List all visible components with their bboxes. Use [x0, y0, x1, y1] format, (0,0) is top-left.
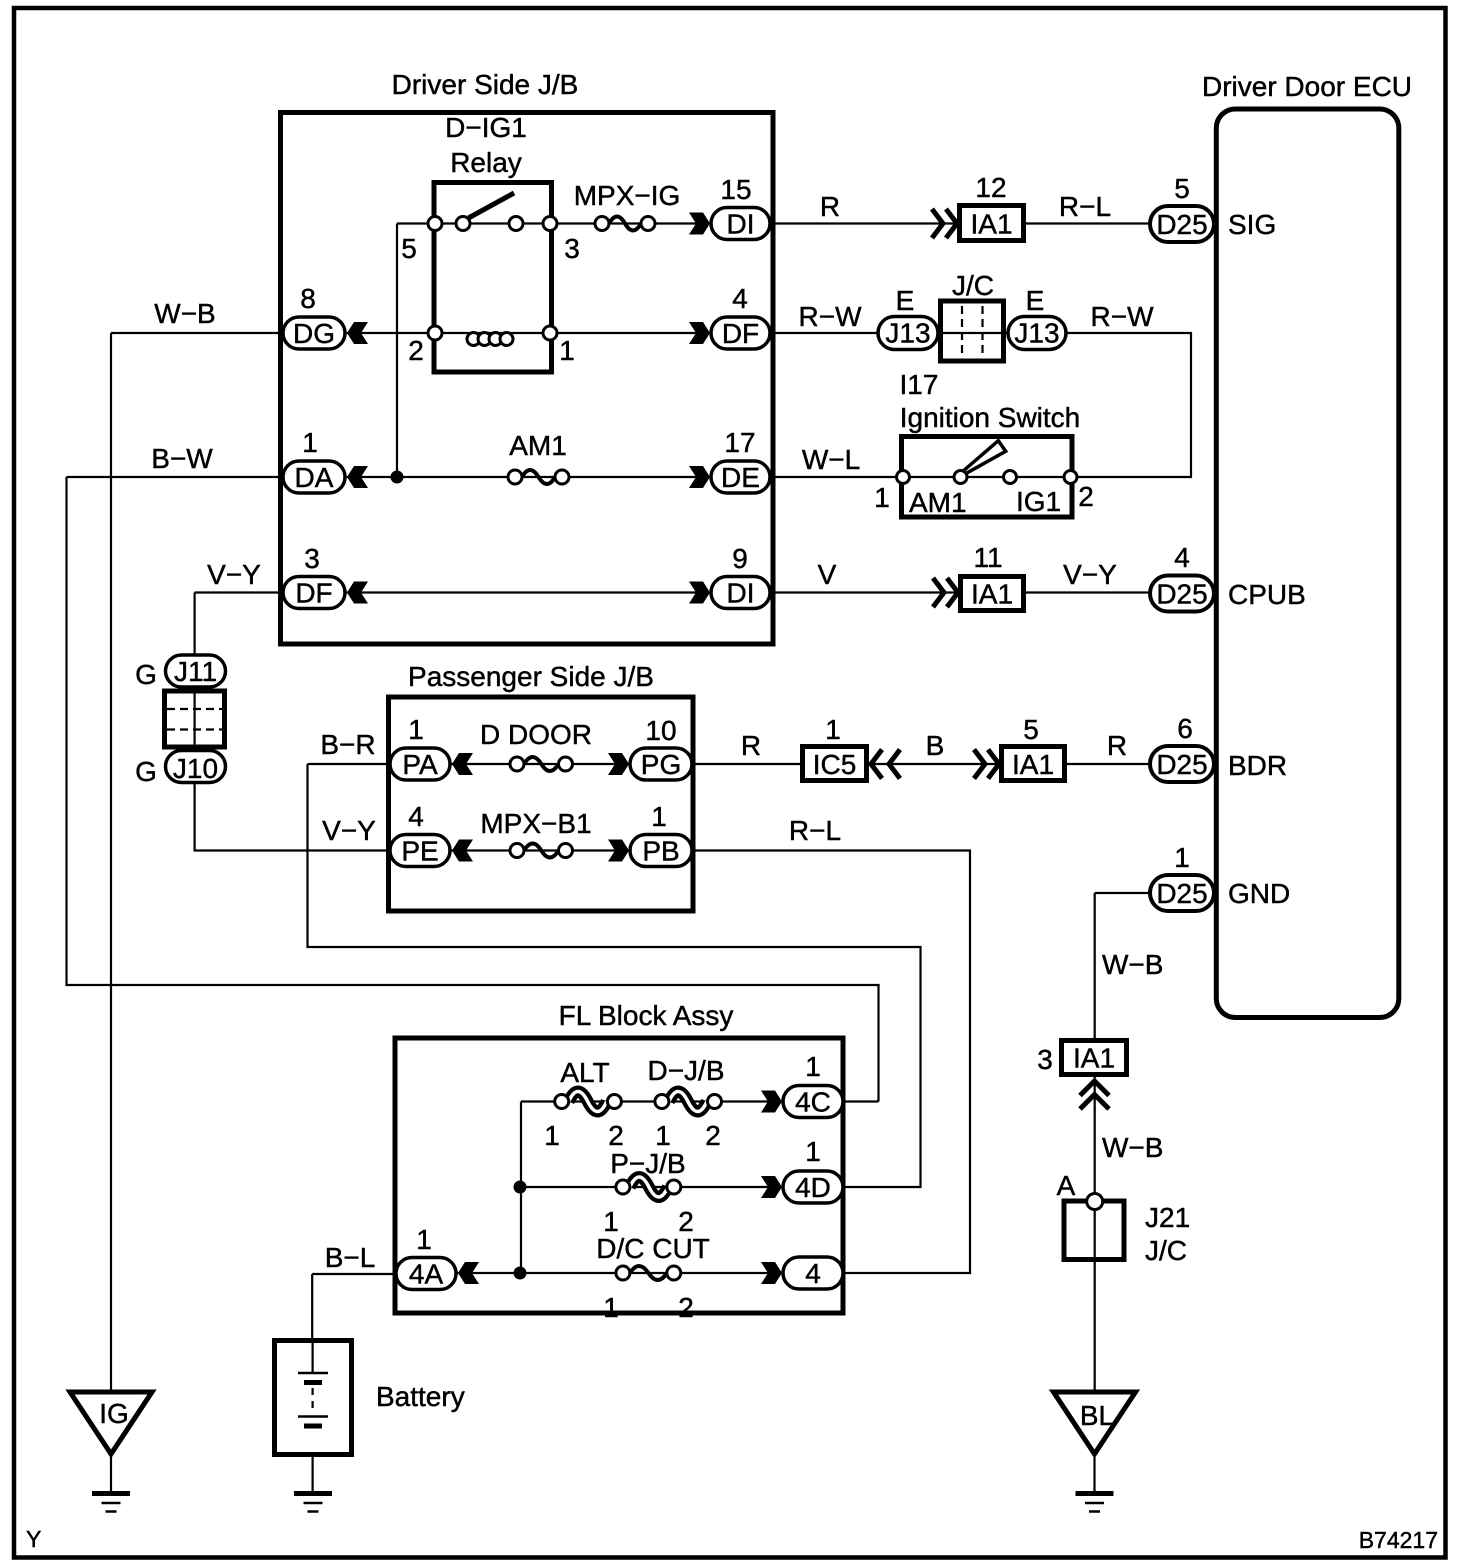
svg-text:V−Y: V−Y: [207, 559, 261, 590]
svg-text:P−J/B: P−J/B: [610, 1148, 685, 1179]
svg-text:AM1: AM1: [509, 430, 567, 461]
svg-text:8: 8: [300, 283, 316, 314]
svg-text:2: 2: [408, 335, 424, 366]
svg-text:IC5: IC5: [813, 749, 857, 780]
svg-text:V: V: [818, 559, 837, 590]
svg-text:MPX−B1: MPX−B1: [480, 808, 591, 839]
svg-text:A: A: [1057, 1170, 1076, 1201]
svg-text:J/C: J/C: [952, 270, 994, 301]
svg-text:10: 10: [645, 715, 676, 746]
svg-text:15: 15: [720, 174, 751, 205]
svg-text:DF: DF: [295, 578, 332, 609]
svg-text:W−B: W−B: [1102, 1132, 1163, 1163]
svg-text:J10: J10: [173, 753, 218, 784]
svg-text:Driver Door ECU: Driver Door ECU: [1202, 71, 1412, 102]
svg-text:ALT: ALT: [560, 1057, 609, 1088]
svg-text:4D: 4D: [795, 1172, 831, 1203]
svg-text:1: 1: [603, 1292, 619, 1323]
svg-text:1: 1: [825, 714, 841, 745]
svg-text:4: 4: [732, 283, 748, 314]
svg-text:D25: D25: [1156, 209, 1207, 240]
svg-text:DE: DE: [721, 462, 760, 493]
svg-text:1: 1: [408, 714, 424, 745]
svg-text:3: 3: [1037, 1044, 1053, 1075]
svg-text:D/C CUT: D/C CUT: [596, 1233, 710, 1264]
svg-text:2: 2: [608, 1120, 624, 1151]
svg-text:4: 4: [1174, 542, 1190, 573]
svg-text:Driver Side J/B: Driver Side J/B: [392, 69, 579, 100]
svg-text:R−L: R−L: [789, 815, 841, 846]
svg-text:IA1: IA1: [1012, 749, 1054, 780]
svg-text:R−W: R−W: [799, 301, 863, 332]
svg-text:J/C: J/C: [1145, 1235, 1187, 1266]
svg-text:W−B: W−B: [1102, 949, 1163, 980]
svg-text:W−B: W−B: [154, 298, 215, 329]
svg-text:DF: DF: [722, 318, 759, 349]
svg-text:1: 1: [805, 1136, 821, 1167]
svg-text:PB: PB: [642, 836, 679, 867]
svg-text:5: 5: [401, 233, 417, 264]
svg-text:R−W: R−W: [1091, 301, 1155, 332]
svg-text:GND: GND: [1228, 878, 1290, 909]
svg-text:I17: I17: [900, 369, 939, 400]
svg-text:Relay: Relay: [450, 147, 522, 178]
svg-text:12: 12: [975, 172, 1006, 203]
svg-text:PG: PG: [641, 749, 681, 780]
svg-text:17: 17: [724, 427, 755, 458]
svg-text:R−L: R−L: [1059, 191, 1111, 222]
svg-text:J11: J11: [174, 656, 217, 687]
svg-text:3: 3: [304, 543, 320, 574]
svg-text:SIG: SIG: [1228, 209, 1276, 240]
svg-text:FL Block Assy: FL Block Assy: [559, 1000, 734, 1031]
svg-text:11: 11: [973, 542, 1002, 573]
svg-text:IA1: IA1: [1073, 1043, 1115, 1074]
svg-text:V−Y: V−Y: [322, 815, 376, 846]
svg-text:4C: 4C: [795, 1087, 831, 1118]
svg-text:D−J/B: D−J/B: [647, 1055, 724, 1086]
svg-text:IG1: IG1: [1016, 486, 1061, 517]
svg-text:BL: BL: [1080, 1400, 1114, 1431]
svg-text:Ignition Switch: Ignition Switch: [900, 402, 1081, 433]
svg-text:2: 2: [1078, 481, 1094, 512]
svg-text:CPUB: CPUB: [1228, 579, 1306, 610]
svg-text:D25: D25: [1156, 878, 1207, 909]
svg-text:PE: PE: [401, 836, 438, 867]
svg-text:V−Y: V−Y: [1063, 559, 1117, 590]
svg-text:B74217: B74217: [1359, 1527, 1438, 1553]
svg-text:1: 1: [805, 1051, 821, 1082]
svg-text:W−L: W−L: [802, 444, 860, 475]
svg-text:1: 1: [874, 482, 890, 513]
svg-text:G: G: [135, 659, 157, 690]
svg-text:1: 1: [302, 427, 318, 458]
svg-text:4: 4: [408, 801, 424, 832]
svg-text:B: B: [926, 730, 945, 761]
svg-text:J13: J13: [885, 318, 930, 349]
svg-text:1: 1: [544, 1120, 560, 1151]
svg-text:D25: D25: [1156, 579, 1207, 610]
svg-text:D−IG1: D−IG1: [445, 112, 527, 143]
svg-text:IG: IG: [99, 1398, 129, 1429]
svg-text:Passenger Side J/B: Passenger Side J/B: [408, 661, 654, 692]
svg-text:DI: DI: [727, 209, 755, 240]
svg-text:1: 1: [651, 801, 667, 832]
svg-text:D25: D25: [1156, 749, 1207, 780]
svg-text:B−R: B−R: [320, 729, 375, 760]
svg-text:2: 2: [705, 1120, 721, 1151]
svg-text:R: R: [1107, 730, 1127, 761]
svg-text:2: 2: [678, 1292, 694, 1323]
svg-text:IA1: IA1: [971, 579, 1013, 610]
svg-text:B−L: B−L: [325, 1242, 376, 1273]
svg-text:Y: Y: [26, 1526, 41, 1552]
svg-text:DA: DA: [295, 462, 334, 493]
svg-text:IA1: IA1: [970, 209, 1012, 240]
svg-text:4A: 4A: [409, 1259, 444, 1290]
svg-text:9: 9: [732, 543, 748, 574]
svg-text:E: E: [1026, 285, 1045, 316]
svg-text:G: G: [135, 756, 157, 787]
svg-text:R: R: [741, 730, 761, 761]
svg-text:5: 5: [1023, 714, 1039, 745]
svg-text:6: 6: [1177, 713, 1193, 744]
svg-text:3: 3: [564, 233, 580, 264]
svg-text:1: 1: [655, 1120, 671, 1151]
svg-text:B−W: B−W: [151, 443, 213, 474]
svg-text:AM1: AM1: [909, 487, 967, 518]
svg-text:E: E: [896, 285, 915, 316]
svg-text:Battery: Battery: [376, 1381, 465, 1412]
svg-text:5: 5: [1174, 173, 1190, 204]
svg-text:D DOOR: D DOOR: [480, 719, 592, 750]
svg-text:J21: J21: [1145, 1202, 1190, 1233]
svg-text:1: 1: [559, 335, 575, 366]
svg-text:4: 4: [805, 1258, 821, 1289]
svg-text:MPX−IG: MPX−IG: [574, 180, 681, 211]
svg-text:BDR: BDR: [1228, 750, 1287, 781]
svg-text:DG: DG: [293, 318, 335, 349]
svg-text:R: R: [820, 191, 840, 222]
svg-text:DI: DI: [727, 578, 755, 609]
svg-text:J13: J13: [1014, 318, 1059, 349]
svg-text:1: 1: [1174, 842, 1190, 873]
svg-text:PA: PA: [402, 749, 438, 780]
svg-text:1: 1: [416, 1224, 432, 1255]
